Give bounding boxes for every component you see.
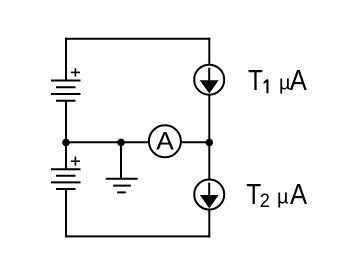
node right junction dot	[206, 139, 214, 147]
svg-text:A: A	[290, 64, 308, 97]
wire left middle	[65, 101, 67, 143]
svg-text:µ: µ	[277, 186, 289, 208]
node left junction dot	[62, 139, 70, 147]
ammeter A1	[149, 125, 181, 157]
wire right lower-middle	[208, 142, 210, 180]
wire top	[65, 38, 210, 40]
wire right lower	[208, 209, 210, 237]
label T2 uA	[246, 178, 308, 211]
battery B2 plus polarity mark	[71, 157, 80, 166]
battery B1	[51, 81, 81, 101]
wire right middle	[208, 95, 210, 143]
svg-text:A: A	[156, 128, 174, 155]
current source T2	[194, 180, 224, 210]
battery B2	[51, 169, 81, 189]
battery B1 plus polarity mark	[71, 68, 80, 76]
svg-text:T: T	[248, 64, 263, 96]
wire middle left segment	[65, 141, 148, 143]
svg-text:A: A	[290, 178, 308, 211]
node center junction dot	[117, 139, 125, 147]
wire bottom	[65, 235, 210, 237]
wire left lower-middle	[65, 142, 67, 170]
ground	[106, 142, 138, 192]
wire middle right segment	[182, 141, 211, 143]
label T1 uA	[248, 64, 308, 97]
wire left lower	[65, 189, 67, 237]
svg-text:2: 2	[260, 190, 270, 212]
current source T1	[194, 65, 224, 95]
wire left upper	[65, 38, 67, 81]
wire right upper	[208, 38, 210, 65]
